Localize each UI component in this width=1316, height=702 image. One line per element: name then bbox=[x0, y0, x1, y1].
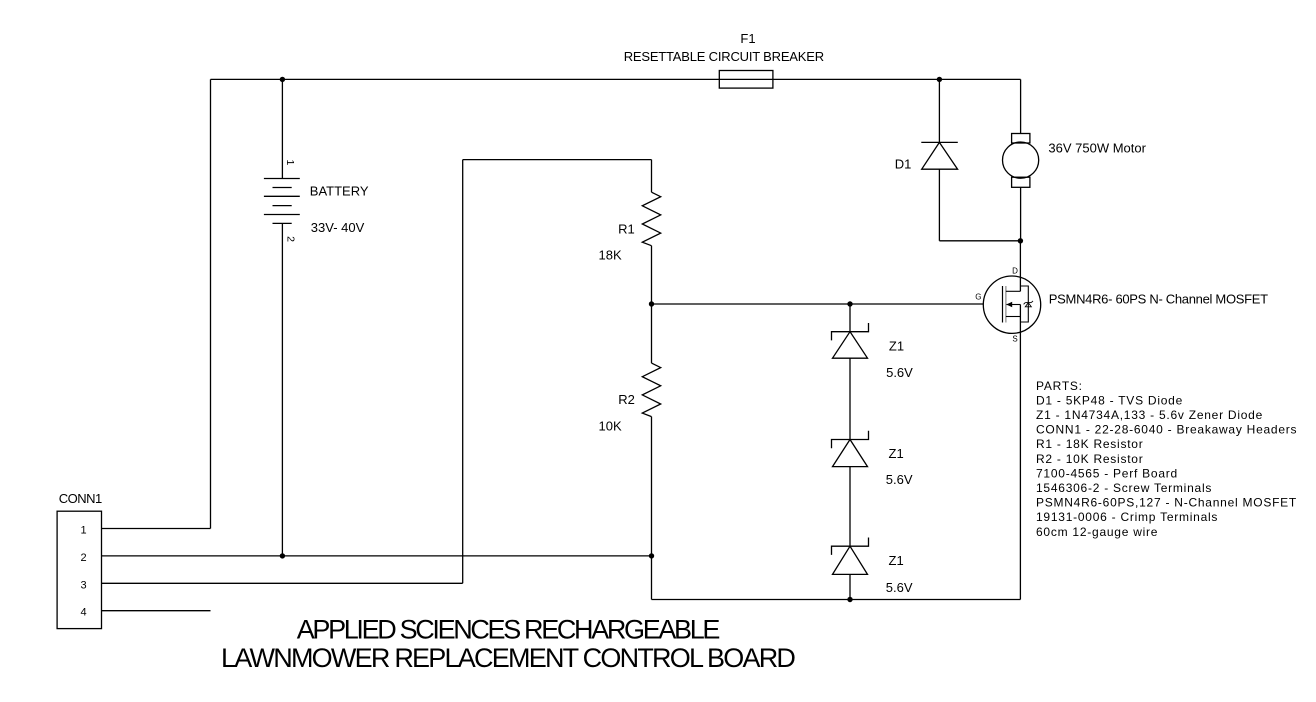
wire bottom rail bbox=[652, 599, 1021, 601]
svg-text:LAWNMOWER REPLACEMENT CONTROL: LAWNMOWER REPLACEMENT CONTROL BOARD bbox=[221, 643, 795, 673]
svg-text:2: 2 bbox=[80, 552, 86, 564]
connector CONN1 bbox=[57, 511, 101, 628]
wire CONN1 pin3 bbox=[102, 582, 463, 584]
fuse F1 bbox=[719, 71, 773, 89]
wire zener chain segment D bbox=[849, 574, 851, 599]
wire top rail bbox=[211, 78, 1021, 80]
node zener bottom junction bbox=[847, 597, 852, 602]
node battery top junction bbox=[280, 77, 285, 82]
wire zener chain segment B bbox=[849, 358, 851, 439]
svg-text:1: 1 bbox=[80, 525, 86, 537]
svg-text:1: 1 bbox=[284, 159, 296, 165]
svg-text:PARTS:: PARTS: bbox=[1036, 379, 1083, 393]
svg-text:CONN1: CONN1 bbox=[59, 491, 102, 506]
wire R1 top lead bbox=[651, 160, 653, 193]
svg-text:3: 3 bbox=[80, 579, 86, 591]
svg-text:5.6V: 5.6V bbox=[886, 472, 913, 487]
wire gate horizontal bbox=[652, 303, 984, 305]
battery BT1 bbox=[264, 179, 300, 224]
wire CONN1 pin1 bbox=[102, 528, 211, 530]
svg-text:R1 - 18K Resistor: R1 - 18K Resistor bbox=[1036, 437, 1143, 451]
zener diode Z1 (third) bbox=[832, 538, 869, 575]
wire D1 to drain node bbox=[939, 240, 1020, 242]
svg-text:Z1 - 1N4734A,133 - 5.6v Zener: Z1 - 1N4734A,133 - 5.6v Zener Diode bbox=[1036, 408, 1263, 422]
parts list text bbox=[1036, 379, 1297, 539]
wire MOSFET source lead bbox=[1019, 305, 1021, 600]
svg-text:4: 4 bbox=[80, 607, 86, 619]
svg-text:19131-0006 - Crimp Terminals: 19131-0006 - Crimp Terminals bbox=[1036, 510, 1218, 524]
MOSFET channel bar bbox=[1005, 286, 1007, 323]
svg-text:36V 750W Motor: 36V 750W Motor bbox=[1048, 141, 1146, 156]
svg-text:BATTERY: BATTERY bbox=[310, 184, 369, 199]
node R2 bottom junction bbox=[649, 553, 654, 558]
svg-text:10K: 10K bbox=[599, 419, 622, 434]
svg-text:R2 - 10K Resistor: R2 - 10K Resistor bbox=[1036, 452, 1143, 466]
resistor R2 bbox=[642, 363, 660, 417]
svg-text:5.6V: 5.6V bbox=[886, 365, 913, 380]
wire D1 bottom lead bbox=[938, 169, 940, 241]
wire motor top lead bbox=[1020, 79, 1022, 133]
wire pin3 vertical riser bbox=[462, 160, 464, 584]
MOSFET body-diode bracket bbox=[1020, 286, 1028, 322]
node drain junction bbox=[1018, 238, 1023, 243]
svg-text:Z1: Z1 bbox=[889, 553, 904, 568]
wire motor bottom lead bbox=[1020, 187, 1022, 241]
wire MOSFET drain lead bbox=[1019, 241, 1021, 291]
svg-text:S: S bbox=[1012, 335, 1017, 344]
svg-text:D1 - 5KP48 - TVS Diode: D1 - 5KP48 - TVS Diode bbox=[1036, 393, 1183, 407]
MOSFET source arrow bbox=[1006, 302, 1012, 307]
svg-text:F1: F1 bbox=[740, 31, 755, 46]
wire R1-R2 middle bbox=[651, 246, 653, 363]
node D1 top junction bbox=[937, 77, 942, 82]
svg-text:Z1: Z1 bbox=[889, 446, 904, 461]
svg-text:D: D bbox=[1012, 266, 1018, 275]
svg-text:60cm 12-gauge wire: 60cm 12-gauge wire bbox=[1036, 525, 1158, 539]
motor M1 bbox=[1003, 134, 1039, 188]
wire CONN1 pin2 bbox=[102, 555, 652, 557]
svg-text:R1: R1 bbox=[618, 222, 635, 237]
MOSFET source connect bottom bbox=[1006, 316, 1021, 318]
svg-text:CONN1 - 22-28-6040 - Breakaway: CONN1 - 22-28-6040 - Breakaway Headers bbox=[1036, 423, 1297, 437]
svg-text:APPLIED SCIENCES RECHARGEABLE: APPLIED SCIENCES RECHARGEABLE bbox=[297, 615, 720, 645]
wire left vertical (pin1 to top rail) bbox=[210, 79, 212, 528]
svg-text:D1: D1 bbox=[895, 156, 912, 171]
wire zener chain segment A bbox=[849, 304, 851, 332]
MOSFET body diode symbol bbox=[1024, 301, 1033, 307]
svg-text:1546306-2 - Screw Terminals: 1546306-2 - Screw Terminals bbox=[1036, 481, 1212, 495]
wire battery bottom lead bbox=[281, 223, 283, 556]
wire R1 top horizontal bbox=[463, 159, 652, 161]
node R1-R2 junction bbox=[649, 301, 654, 306]
svg-text:2: 2 bbox=[285, 236, 297, 242]
wire R2 bottom lead bbox=[651, 417, 653, 600]
svg-text:G: G bbox=[975, 292, 981, 301]
op-amp U1 MOSFET body bbox=[983, 276, 1040, 333]
MOSFET drain connect bbox=[1006, 290, 1021, 292]
node battery bottom junction bbox=[280, 553, 285, 558]
zener diode Z1 (second) bbox=[832, 431, 869, 467]
svg-text:RESETTABLE CIRCUIT BREAKER: RESETTABLE CIRCUIT BREAKER bbox=[624, 49, 824, 64]
resistor R1 bbox=[642, 192, 660, 246]
wire CONN1 pin4 stub bbox=[102, 610, 211, 612]
svg-text:7100-4565 - Perf Board: 7100-4565 - Perf Board bbox=[1036, 466, 1178, 480]
zener diode Z1 (first) bbox=[832, 323, 869, 358]
svg-text:PSMN4R6-60PS,127 - N-Channel M: PSMN4R6-60PS,127 - N-Channel MOSFET bbox=[1036, 496, 1297, 510]
svg-text:18K: 18K bbox=[599, 247, 622, 262]
svg-text:R2: R2 bbox=[618, 392, 635, 407]
wire battery top lead bbox=[281, 79, 283, 178]
diode D1 bbox=[921, 142, 958, 169]
svg-text:Z1: Z1 bbox=[889, 338, 904, 353]
MOSFET gate bar bbox=[1002, 286, 1004, 323]
MOSFET source connect mid bbox=[1007, 304, 1021, 306]
svg-text:PSMN4R6- 60PS N- Channel MOSFE: PSMN4R6- 60PS N- Channel MOSFET bbox=[1049, 292, 1268, 307]
wire D1 top lead bbox=[938, 79, 940, 142]
svg-text:5.6V: 5.6V bbox=[886, 580, 913, 595]
node zener top junction bbox=[847, 301, 852, 306]
wire zener chain segment C bbox=[849, 467, 851, 547]
svg-text:33V- 40V: 33V- 40V bbox=[311, 220, 365, 235]
